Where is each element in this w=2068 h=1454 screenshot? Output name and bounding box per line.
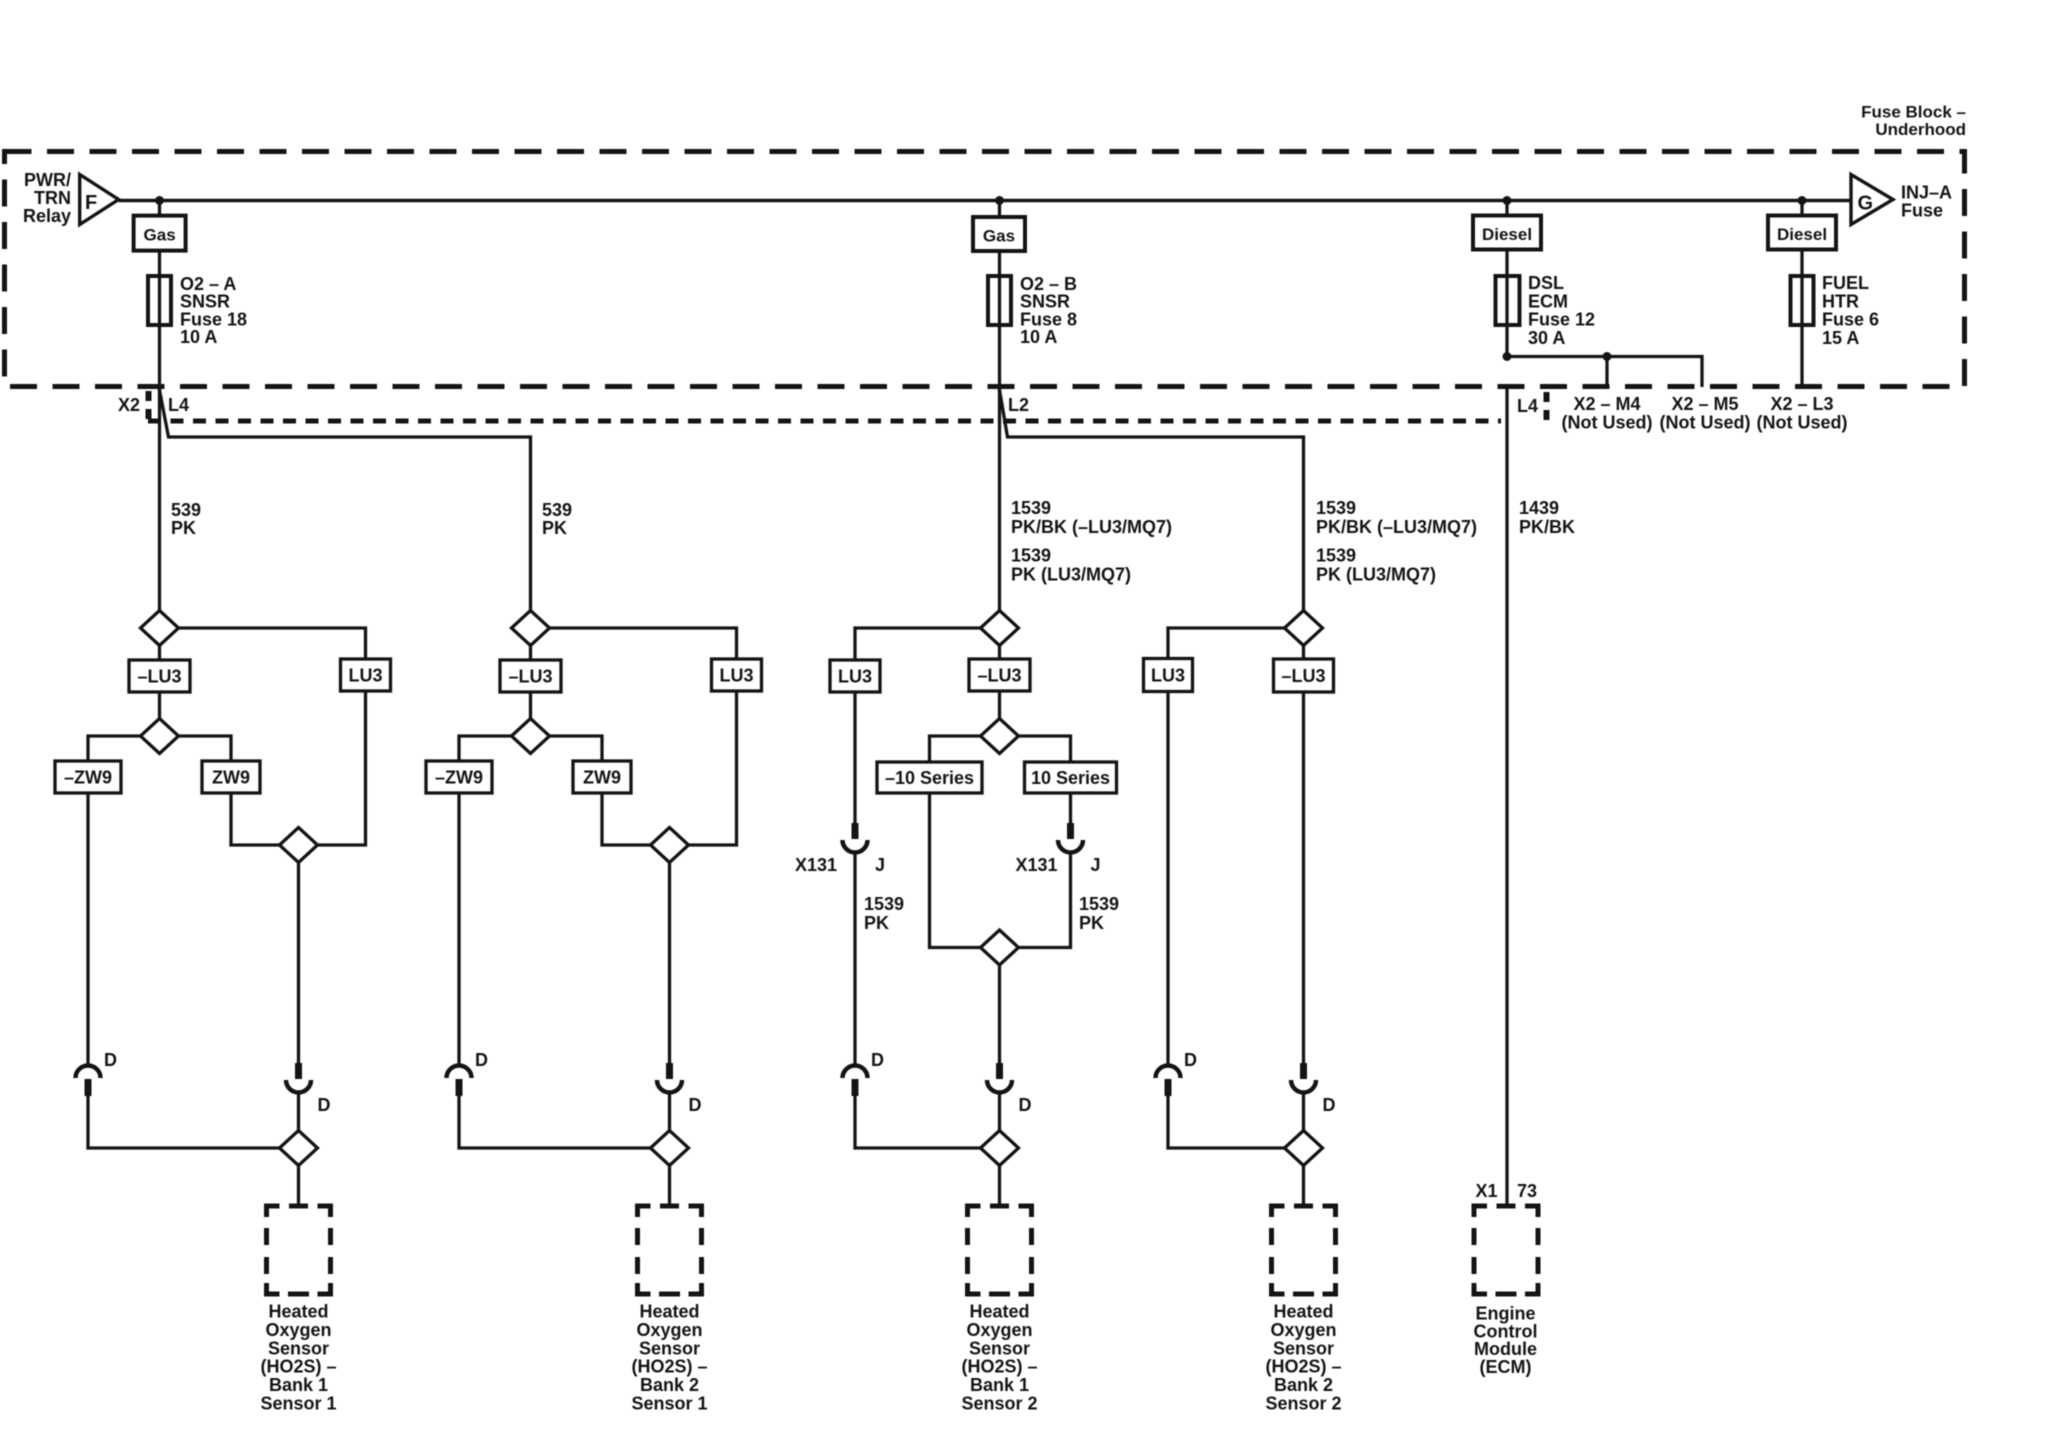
junction dot node Diesel DSL <box>1503 196 1512 205</box>
wire 539 PK branch to bank2 sensor1 <box>160 390 531 611</box>
wire LU3 down to connector X131-J left (g3) <box>853 692 856 823</box>
fuse 12 DSL ECM <box>1496 276 1520 325</box>
svg-text:J: J <box>1091 855 1101 875</box>
splice diamond S4a <box>1285 611 1323 646</box>
svg-text:539: 539 <box>171 500 201 520</box>
svg-text:30 A: 30 A <box>1528 328 1565 348</box>
svg-text:ZW9: ZW9 <box>212 768 250 788</box>
wire merge diamond down to connector D (g3) <box>998 965 1001 1063</box>
wire splice to LU3 option (g1) <box>179 628 366 659</box>
svg-text:(Not Used): (Not Used) <box>1757 413 1848 433</box>
HO2S Bank 2 Sensor 1 dashed box <box>638 1206 702 1294</box>
wire -LU3 to splice diamond S2b (g2) <box>529 692 532 719</box>
label O2-B SNSR Fuse 8 10 A <box>1020 274 1077 347</box>
svg-text:D: D <box>104 1050 117 1070</box>
label J (right connector) <box>1091 855 1101 875</box>
inline connector X131 J right (g3) <box>1058 823 1083 852</box>
svg-text:Bank 1: Bank 1 <box>970 1375 1029 1395</box>
label circuit 539 PK (bank1) <box>171 500 201 538</box>
option box ZW9 (g2) <box>573 761 631 793</box>
svg-text:HTR: HTR <box>1822 291 1859 311</box>
wire Diesel box 2 to fuse 6 <box>1800 250 1803 277</box>
wire LU3 down to merge diamond (g1) <box>318 691 366 845</box>
svg-text:1539: 1539 <box>1316 546 1356 566</box>
svg-text:Relay: Relay <box>23 206 71 226</box>
wire splice to 10 Series option (g3) <box>1019 736 1071 762</box>
svg-text:539: 539 <box>542 500 572 520</box>
svg-text:D: D <box>1019 1095 1032 1115</box>
svg-text:Heated: Heated <box>268 1302 328 1322</box>
option box -LU3 (g2) <box>500 660 561 692</box>
label FUEL HTR Fuse 6 15 A <box>1822 273 1879 348</box>
svg-text:1539: 1539 <box>1316 498 1356 518</box>
svg-text:Fuse: Fuse <box>1901 201 1943 221</box>
svg-text:PK: PK <box>171 518 196 538</box>
label D left (g2) <box>475 1050 488 1070</box>
svg-text:LU3: LU3 <box>1151 666 1185 686</box>
wire splice to -10 Series option (g3) <box>930 736 981 762</box>
wire X131 left down to connector D (g3) <box>853 853 856 1066</box>
wire through fuse 8 down to connector X2-L2 <box>998 276 1001 392</box>
label Fuse Block - Underhood <box>1861 103 1966 140</box>
wire 1539 feed bank1 sensor2 <box>998 387 1001 611</box>
wire bus to Diesel box 2 <box>1800 201 1803 216</box>
HO2S Bank 1 Sensor 1 dashed box <box>267 1206 331 1294</box>
svg-text:D: D <box>318 1095 331 1115</box>
wire to HO2S sensor box (g3) <box>998 1166 1001 1207</box>
wire ZW9 down to merge diamond (g2) <box>602 793 651 845</box>
svg-text:Sensor: Sensor <box>639 1338 700 1358</box>
wire X131 to merge diamond (g3) <box>1019 853 1071 948</box>
svg-text:(Not Used): (Not Used) <box>1562 413 1653 433</box>
svg-text:Bank 2: Bank 2 <box>640 1375 699 1395</box>
svg-text:Sensor: Sensor <box>268 1338 329 1358</box>
bottom splice diamond S4d <box>1285 1131 1323 1166</box>
svg-text:Bank 1: Bank 1 <box>269 1375 328 1395</box>
svg-text:Fuse Block –: Fuse Block – <box>1861 103 1966 122</box>
wire merge diamond down to connector D (g2) <box>668 863 671 1064</box>
svg-text:10 A: 10 A <box>180 327 217 347</box>
power feed triangle F (PWR/TRN Relay) <box>80 175 119 225</box>
svg-text:Sensor: Sensor <box>969 1338 1030 1358</box>
inline connector D female (g3) <box>843 1066 868 1097</box>
wire splice to -LU3 option (g4) <box>1302 646 1305 660</box>
wire splice to -LU3 option (g1) <box>158 646 161 661</box>
label pin L4 (right) <box>1517 396 1538 416</box>
fuse feed triangle G (INJ-A Fuse) <box>1851 175 1893 225</box>
label D right (g2) <box>689 1095 702 1115</box>
wire 539 PK feed bank1 sensor1 <box>158 387 161 611</box>
label D right (g3) <box>1019 1095 1032 1115</box>
label X131 (left connector) <box>795 855 837 875</box>
svg-text:PWR/: PWR/ <box>24 170 71 190</box>
label circuit 1439 PK/BK <box>1519 498 1575 537</box>
junction dot X2-M4 stub <box>1603 352 1612 361</box>
svg-text:PK: PK <box>864 913 889 933</box>
inline connector X131 J left (g3) <box>843 823 868 852</box>
svg-text:15 A: 15 A <box>1822 328 1859 348</box>
wire -ZW9 down to connector D (g2) <box>457 793 460 1065</box>
svg-text:L4: L4 <box>168 395 189 415</box>
wire branch to X2-M4 / X2-M5 stubs <box>1507 357 1702 388</box>
option box -LU3 (g1) <box>129 660 190 692</box>
wire connector D to bottom splice diamond (g2) <box>668 1093 671 1132</box>
wire splice to -LU3 option (g3) <box>998 646 1001 660</box>
svg-text:1539: 1539 <box>1079 894 1119 914</box>
label circuit 539 PK (bank2) <box>542 500 572 538</box>
option box -10 Series (g3) <box>877 762 982 793</box>
option box LU3 (g3) <box>830 660 880 692</box>
label O2-A SNSR Fuse 18 10 A <box>180 274 247 347</box>
wire -LU3 to splice diamond S1b (g1) <box>158 692 161 719</box>
label Engine Control Module ECM <box>1474 1304 1538 1377</box>
wire connector D to bottom splice (g1) <box>88 1096 280 1148</box>
svg-text:Oxygen: Oxygen <box>636 1320 702 1340</box>
label X2 (left) <box>118 395 140 415</box>
splice diamond S1a <box>141 611 179 646</box>
wire Diesel box 1 to fuse 12 <box>1505 250 1508 277</box>
wire LU3 down to connector D (g4) <box>1166 692 1169 1066</box>
wire 10 Series down to connector X131-J right (g3) <box>1069 793 1072 823</box>
wire connector D to bottom splice diamond (g3) <box>998 1093 1001 1132</box>
svg-text:Gas: Gas <box>144 226 176 245</box>
label circuit 1539 PK/BK (bank2 sensor2) <box>1316 498 1477 585</box>
option box LU3 (g4) <box>1144 659 1193 692</box>
svg-text:X131: X131 <box>1015 855 1057 875</box>
splice diamond S1b <box>141 719 179 754</box>
bottom splice diamond S1d <box>280 1131 318 1166</box>
svg-text:X2 – L3: X2 – L3 <box>1770 394 1833 414</box>
wire through fuse 6 to border X2-L3 <box>1800 276 1803 387</box>
wire through fuse 18 down to connector X2-L4 <box>158 276 161 392</box>
svg-text:D: D <box>1184 1050 1197 1070</box>
svg-text:D: D <box>475 1050 488 1070</box>
merge diamond S1c <box>280 828 318 863</box>
merge diamond S2c <box>651 828 689 863</box>
ECM dashed box <box>1474 1206 1538 1294</box>
wire merge diamond down to connector D (g1) <box>297 863 300 1064</box>
inline connector D male (g1) <box>286 1063 311 1093</box>
fuse 18 O2-A SNSR <box>148 276 171 325</box>
label pin L2 <box>1008 395 1029 415</box>
Diesel box 1 <box>1473 216 1541 250</box>
wire connector D to bottom splice diamond (g1) <box>297 1093 300 1132</box>
svg-text:G: G <box>1858 193 1874 215</box>
wire bus to Gas box A <box>158 201 161 216</box>
wire -10 Series down to merge diamond (g3) <box>930 793 981 948</box>
svg-text:Sensor 2: Sensor 2 <box>1265 1394 1341 1414</box>
connector X2 dotted line <box>148 419 1501 424</box>
svg-text:Diesel: Diesel <box>1777 225 1827 244</box>
svg-text:PK: PK <box>1079 913 1104 933</box>
svg-text:X1: X1 <box>1475 1181 1497 1201</box>
label X131 (right connector) <box>1015 855 1057 875</box>
svg-text:1539: 1539 <box>864 894 904 914</box>
power bus wire <box>119 199 1851 203</box>
fuse block - underhood dashed border <box>5 152 1965 387</box>
Diesel box 2 <box>1768 216 1836 250</box>
svg-text:DSL: DSL <box>1528 273 1564 293</box>
junction dot node Gas B <box>995 196 1004 205</box>
bottom splice diamond S3d <box>981 1131 1019 1166</box>
wire to HO2S sensor box (g4) <box>1302 1166 1305 1207</box>
svg-text:TRN: TRN <box>34 188 71 208</box>
svg-text:(Not Used): (Not Used) <box>1660 413 1751 433</box>
svg-text:LU3: LU3 <box>719 666 753 686</box>
merge diamond S3c <box>981 930 1019 965</box>
svg-text:(HO2S) –: (HO2S) – <box>631 1357 707 1377</box>
svg-text:D: D <box>871 1050 884 1070</box>
svg-text:X2: X2 <box>118 395 140 415</box>
svg-text:–LU3: –LU3 <box>137 667 181 687</box>
svg-text:–ZW9: –ZW9 <box>64 768 112 788</box>
wire -ZW9 down to connector D (g1) <box>86 793 89 1065</box>
inline connector D male (g2) <box>657 1063 682 1093</box>
label D right (g1) <box>318 1095 331 1115</box>
label D right (g4) <box>1323 1095 1336 1115</box>
wire splice to -ZW9 option (g1) <box>88 736 141 761</box>
option box -LU3 (g3) <box>969 659 1030 691</box>
label Heated Oxygen Sensor HO2S Bank 1 Sensor 1 <box>260 1302 336 1414</box>
wire 1539 branch to bank2 sensor2 <box>1000 390 1304 611</box>
label Heated Oxygen Sensor HO2S Bank 2 Sensor 2 <box>1265 1302 1341 1414</box>
option box -ZW9 (g2) <box>426 761 492 793</box>
wire -LU3 to splice S3b (g3) <box>998 691 1001 719</box>
svg-text:Gas: Gas <box>983 227 1015 246</box>
HO2S Bank 2 Sensor 2 dashed box <box>1272 1206 1336 1294</box>
separator dotted left <box>146 391 152 424</box>
bottom splice diamond S2d <box>651 1131 689 1166</box>
wire -LU3 down to connector D (g4) <box>1302 692 1305 1063</box>
splice diamond S3b <box>981 719 1019 754</box>
label circuit 1539 PK/BK (bank1 sensor2) <box>1011 498 1172 585</box>
svg-text:–LU3: –LU3 <box>977 666 1021 686</box>
label Heated Oxygen Sensor HO2S Bank 2 Sensor 1 <box>631 1302 707 1414</box>
svg-text:INJ–A: INJ–A <box>1901 183 1952 203</box>
wire splice to ZW9 option (g2) <box>550 736 603 761</box>
label X2-L3 Not Used <box>1757 394 1848 433</box>
wire splice to -ZW9 option (g2) <box>459 736 512 761</box>
label pin L4 (left) <box>168 395 189 415</box>
svg-text:PK/BK (–LU3/MQ7): PK/BK (–LU3/MQ7) <box>1011 517 1172 537</box>
svg-text:L4: L4 <box>1517 396 1538 416</box>
svg-text:X2 – M5: X2 – M5 <box>1671 394 1738 414</box>
svg-text:PK (LU3/MQ7): PK (LU3/MQ7) <box>1316 565 1436 585</box>
svg-text:D: D <box>689 1095 702 1115</box>
svg-text:Fuse 12: Fuse 12 <box>1528 310 1595 330</box>
wire splice to ZW9 option (g1) <box>179 736 232 761</box>
wire Gas box A to fuse 18 <box>158 251 161 276</box>
wire connector D to bottom splice (g2) <box>459 1096 651 1148</box>
option box 10 Series (g3) <box>1025 762 1117 793</box>
svg-text:F: F <box>85 192 97 214</box>
svg-text:Heated: Heated <box>639 1302 699 1322</box>
svg-text:–ZW9: –ZW9 <box>435 768 483 788</box>
wire ZW9 down to merge diamond (g1) <box>231 793 280 845</box>
svg-text:L2: L2 <box>1008 395 1029 415</box>
svg-text:73: 73 <box>1517 1181 1537 1201</box>
inline connector D male (g4) <box>1291 1063 1316 1093</box>
svg-text:J: J <box>875 855 885 875</box>
wire bus to Diesel box 1 <box>1505 201 1508 216</box>
wire stub X2-M4 <box>1605 357 1608 388</box>
svg-text:D: D <box>1323 1095 1336 1115</box>
svg-text:FUEL: FUEL <box>1822 273 1869 293</box>
label circuit 1539 PK (left) <box>864 894 904 933</box>
wire 1439 PK/BK to ECM <box>1505 387 1508 1206</box>
svg-text:Fuse 6: Fuse 6 <box>1822 310 1879 330</box>
svg-text:Sensor: Sensor <box>1273 1338 1334 1358</box>
wire through fuse 12 to junction <box>1505 276 1508 356</box>
wire connector D to bottom splice (g3) <box>855 1096 981 1148</box>
junction dot below fuse 12 <box>1503 352 1512 361</box>
svg-text:–LU3: –LU3 <box>1281 666 1325 686</box>
svg-text:X2 – M4: X2 – M4 <box>1573 394 1640 414</box>
svg-text:(HO2S) –: (HO2S) – <box>1265 1357 1341 1377</box>
svg-text:Bank 2: Bank 2 <box>1274 1375 1333 1395</box>
svg-text:Sensor 2: Sensor 2 <box>961 1394 1037 1414</box>
label D left (g3) <box>871 1050 884 1070</box>
label X1 73 pin <box>1475 1181 1537 1201</box>
wire to HO2S sensor box (g2) <box>668 1166 671 1207</box>
label D left (g4) <box>1184 1050 1197 1070</box>
inline connector D male (g3) <box>987 1063 1012 1093</box>
wire splice to LU3 option (g4) <box>1168 628 1285 658</box>
svg-text:PK: PK <box>542 518 567 538</box>
svg-text:1539: 1539 <box>1011 546 1051 566</box>
svg-text:(HO2S) –: (HO2S) – <box>260 1357 336 1377</box>
splice diamond S2b <box>512 719 550 754</box>
svg-text:10 Series: 10 Series <box>1031 768 1110 788</box>
wire to HO2S sensor box (g1) <box>297 1166 300 1207</box>
wire splice to -LU3 option (g2) <box>529 646 532 661</box>
svg-text:Sensor 1: Sensor 1 <box>631 1394 707 1414</box>
wire connector D to bottom splice diamond (g4) <box>1302 1093 1305 1132</box>
svg-text:–LU3: –LU3 <box>508 667 552 687</box>
option box LU3 (g2) <box>712 659 762 691</box>
wire bus to Gas box B <box>998 201 1001 218</box>
svg-text:Oxygen: Oxygen <box>1270 1320 1336 1340</box>
svg-text:Heated: Heated <box>969 1302 1029 1322</box>
label DSL ECM Fuse 12 30 A <box>1528 273 1595 348</box>
junction dot node Gas A <box>155 196 164 205</box>
svg-text:(HO2S) –: (HO2S) – <box>961 1357 1037 1377</box>
inline connector D female (g2) <box>447 1066 472 1097</box>
svg-text:Sensor 1: Sensor 1 <box>260 1394 336 1414</box>
svg-text:(ECM): (ECM) <box>1480 1357 1532 1377</box>
svg-text:PK/BK (–LU3/MQ7): PK/BK (–LU3/MQ7) <box>1316 517 1477 537</box>
svg-text:ECM: ECM <box>1528 291 1568 311</box>
wire splice to LU3 option (g2) <box>550 628 737 659</box>
splice diamond S2a <box>512 611 550 646</box>
label D left (g1) <box>104 1050 117 1070</box>
splice diamond S3a <box>981 611 1019 646</box>
svg-text:Underhood: Underhood <box>1875 120 1966 139</box>
label circuit 1539 PK (right) <box>1079 894 1119 933</box>
inline connector D female (g4) <box>1156 1066 1181 1097</box>
label X2-M5 Not Used <box>1660 394 1751 433</box>
fuse 6 FUEL HTR <box>1791 276 1814 325</box>
option box -ZW9 (g1) <box>55 761 121 793</box>
svg-text:Oxygen: Oxygen <box>265 1320 331 1340</box>
svg-text:Oxygen: Oxygen <box>966 1320 1032 1340</box>
Gas box B <box>973 217 1025 251</box>
svg-text:Heated: Heated <box>1273 1302 1333 1322</box>
junction dot node Diesel FUEL <box>1798 196 1807 205</box>
option box -LU3 (g4) <box>1274 659 1334 692</box>
label PWR/TRN Relay <box>23 170 71 226</box>
label Heated Oxygen Sensor HO2S Bank 1 Sensor 2 <box>961 1302 1037 1414</box>
svg-text:1539: 1539 <box>1011 498 1051 518</box>
svg-text:PK (LU3/MQ7): PK (LU3/MQ7) <box>1011 565 1131 585</box>
label INJ-A Fuse <box>1901 183 1952 221</box>
wire splice to LU3 option (g3) <box>855 628 981 660</box>
Gas box A <box>134 216 186 251</box>
svg-text:10 A: 10 A <box>1020 327 1057 347</box>
svg-text:X131: X131 <box>795 855 837 875</box>
option box LU3 (g1) <box>341 659 391 691</box>
label J (left connector) <box>875 855 885 875</box>
svg-text:LU3: LU3 <box>348 666 382 686</box>
HO2S Bank 1 Sensor 2 dashed box <box>968 1206 1032 1294</box>
fuse 8 O2-B SNSR <box>988 276 1011 325</box>
inline connector D female (g1) <box>76 1066 101 1097</box>
wire connector D to bottom splice (g4) <box>1168 1096 1285 1148</box>
wire LU3 down to merge diamond (g2) <box>689 691 737 845</box>
svg-text:–10 Series: –10 Series <box>885 768 974 788</box>
svg-text:LU3: LU3 <box>838 667 872 687</box>
svg-text:PK/BK: PK/BK <box>1519 517 1575 537</box>
svg-text:ZW9: ZW9 <box>583 768 621 788</box>
svg-text:Diesel: Diesel <box>1482 225 1532 244</box>
option box ZW9 (g1) <box>202 761 260 793</box>
wire Gas box B to fuse 8 <box>998 251 1001 276</box>
svg-text:1439: 1439 <box>1519 498 1559 518</box>
label X2-M4 Not Used <box>1562 394 1653 433</box>
separator dotted right <box>1544 392 1550 425</box>
